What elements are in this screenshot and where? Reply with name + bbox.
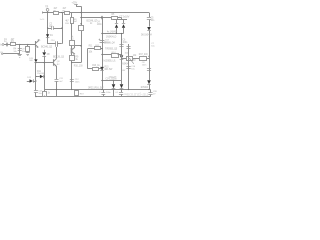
capacitor C5 label [151, 17, 155, 22]
wire input [4, 44, 36, 46]
resistor R10 label [65, 19, 78, 25]
node C junction [80, 12, 81, 13]
wire collector link [48, 43, 62, 45]
capacitor C17 [34, 91, 38, 93]
transistor Q2 [54, 59, 57, 67]
diode label 4x1N5404 [107, 32, 118, 34]
diode D8 [42, 50, 46, 57]
text 0R1 [105, 66, 114, 71]
capacitor C3 [18, 49, 22, 51]
capacitor C12 label [75, 79, 80, 84]
resistor R8 [79, 26, 84, 31]
svg-text:R17_240: R17_240 [139, 54, 148, 56]
capacitor C10 label [51, 40, 56, 42]
wire inter-rail x113.5 [113, 90, 115, 97]
wire Q2 emitter [56, 66, 58, 79]
capacitor C13 label [105, 39, 110, 44]
diode D9 label [121, 63, 129, 65]
wire x72-x81 link [72, 62, 81, 64]
transistor Q2 label [53, 56, 65, 66]
wire vert x113.5 [113, 81, 115, 85]
capacitor C4 [99, 16, 104, 19]
diode D11 [40, 75, 44, 79]
capacitor C15 [126, 47, 130, 49]
resistor R13 label [92, 65, 100, 67]
capacitor C20 label [153, 91, 158, 96]
resistor R11 label [89, 46, 94, 54]
text 1N5404 mid [106, 36, 117, 38]
capacitor C11 [55, 80, 59, 97]
capacitor C6 [119, 45, 123, 47]
resistor R3 [11, 43, 16, 46]
fuse F1 text [46, 5, 49, 11]
capacitor C17 label [38, 91, 43, 96]
resistor R5 label [112, 14, 116, 16]
svg-text:BC: BC [57, 64, 60, 66]
svg-text:+25V: +25V [72, 1, 78, 4]
ground G1 [18, 55, 22, 58]
node G junction [19, 44, 20, 45]
ground G2 [26, 53, 30, 56]
potentiometer P2 label [133, 55, 137, 62]
node E junction [101, 17, 102, 18]
wire gnd left corner [35, 63, 37, 97]
diode D13 [34, 59, 37, 62]
wire mid bus x102 [102, 18, 104, 90]
resistor R13 [93, 68, 99, 71]
capacitor C14 label [106, 70, 126, 81]
text 2200u row2 [109, 77, 118, 79]
wire vert x47.6 [47, 13, 49, 45]
wire feedback bot [88, 68, 103, 69]
wire 2200u node [101, 80, 121, 81]
wire pot top [128, 44, 130, 58]
text r10 [74, 66, 83, 68]
capacitor C13 [100, 41, 105, 43]
wire top rail +V [42, 11, 149, 13]
capacitor C10 [56, 41, 58, 47]
node H junction [27, 44, 28, 45]
capacitor C8 [147, 69, 151, 71]
wire vert x72.2 [71, 60, 73, 89]
resistor R10 narrow [71, 13, 74, 41]
resistor R7 [70, 41, 75, 49]
capacitor C2 label [49, 24, 53, 28]
text q1 type [41, 45, 53, 48]
resistor R14 label [112, 52, 117, 54]
input label [0, 43, 3, 46]
svg-text:CT 2x18V: CT 2x18V [119, 15, 130, 18]
transistor Q3 [72, 47, 76, 54]
resistor R18 label [48, 93, 51, 95]
capacitor C19 [119, 90, 123, 97]
node A junction [61, 12, 62, 13]
wire mid rail [81, 17, 122, 19]
resistor R1 label [54, 7, 58, 12]
transformer label CT [119, 15, 130, 18]
svg-text:BC546_Q2: BC546_Q2 [41, 45, 53, 48]
wire y76.5 [35, 76, 45, 77]
text U2 label [104, 42, 115, 44]
diode D6 [147, 27, 151, 56]
wire stub left [0, 52, 20, 55]
resistor R7 label [71, 36, 74, 40]
resistor R19 label [80, 94, 85, 96]
text quarter watt [40, 19, 45, 21]
capacitor C6 label [123, 40, 129, 45]
wire rail mid y89.5 [44, 89, 150, 91]
node D junction [80, 17, 81, 18]
diode D7 [147, 80, 151, 89]
potentiometer P2 box [127, 57, 133, 61]
resistor R2 [65, 12, 70, 15]
svg-text:R10_100: R10_100 [74, 66, 83, 68]
diode D12 label [27, 77, 32, 79]
capacitor C11 label [59, 78, 63, 83]
wire Q1 emitter down [35, 47, 37, 59]
diode D8 label [47, 54, 51, 56]
text Q5 label [105, 48, 118, 50]
wire y58 chain [122, 55, 150, 59]
capacitor C2 [52, 26, 54, 30]
zener D10 [100, 67, 104, 71]
node R8 junction [80, 23, 81, 24]
resistor R9 label [75, 56, 79, 61]
wire feedback vert [87, 49, 89, 69]
diode D9 [120, 54, 124, 60]
wire rail89 left corner [44, 89, 46, 91]
wire pot bottom [128, 58, 130, 89]
diode D6 label [141, 34, 153, 36]
resistor R18 [43, 90, 47, 97]
transistor Q1 [36, 40, 39, 48]
text regulator [104, 59, 117, 62]
resistor R2 label [63, 7, 67, 12]
svg-text:C14_2200u: C14_2200u [106, 79, 118, 81]
resistor R5 [112, 17, 118, 20]
wire vert x62 [62, 13, 64, 44]
text above rail [88, 87, 104, 90]
resistor R11 [95, 47, 101, 50]
wire bridge top [113, 18, 127, 20]
svg-text:D6 1N5404: D6 1N5404 [141, 34, 153, 36]
diode D5 [120, 84, 124, 89]
wire power feed [76, 6, 82, 62]
power +25V symbol [74, 4, 78, 6]
diode D4 [112, 84, 116, 89]
capacitor C16 label [131, 66, 136, 71]
resistor R3 label [11, 39, 15, 43]
diode D1 label [50, 35, 54, 37]
resistor R4 label [13, 48, 17, 53]
power +25V label [72, 1, 78, 4]
capacitor C12 [70, 80, 74, 82]
resistor R9 [70, 56, 75, 61]
plus sign [99, 39, 101, 41]
resistor R17 [140, 57, 147, 61]
resistor R19 [75, 90, 79, 97]
diode D2 [115, 24, 118, 34]
capacitor C4 label [97, 21, 103, 26]
resistor R6 [26, 45, 30, 53]
wire cap branch [47, 27, 63, 28]
wire vert x44.2 [44, 56, 46, 90]
text q4 label [87, 21, 98, 26]
capacitor C8 label [142, 43, 156, 66]
wire base link [35, 62, 54, 63]
resistor R1 [54, 12, 59, 15]
diode D1 [46, 34, 49, 37]
diode D13 label [29, 58, 33, 62]
diode D3 [122, 24, 125, 34]
svg-text:R13_1k: R13_1k [92, 65, 100, 67]
node I junction [71, 62, 72, 63]
fuse F1 [46, 9, 49, 13]
svg-text:100n: 100n [123, 42, 129, 44]
svg-text:BD139_Q3: BD139_Q3 [53, 56, 65, 59]
svg-text:sound-au: sound-au [127, 92, 149, 98]
svg-text:100n: 100n [97, 24, 103, 26]
svg-text:1N5404_D: 1N5404_D [106, 36, 117, 38]
capacitor C5 [147, 18, 151, 27]
wire out stage [101, 54, 121, 55]
capacitor C19 label [124, 94, 129, 96]
wire top right corner [149, 13, 151, 18]
capacitor C16 [126, 67, 130, 69]
svg-text:1N5404: 1N5404 [141, 87, 149, 89]
svg-text:MJ2955_U1: MJ2955_U1 [104, 59, 117, 62]
wire vert x19.7 [19, 45, 21, 55]
capacitor C1 [7, 43, 8, 47]
wire bridge bottom [101, 33, 123, 34]
wire vert x121.5 [121, 33, 122, 84]
wire bridge right leg [123, 20, 125, 23]
capacitor C18 [101, 90, 105, 97]
diode D12 [30, 79, 37, 83]
wire rail gnd y96.5 [36, 96, 151, 98]
capacitor C15 label [125, 52, 129, 54]
text bottom mid [99, 92, 119, 94]
wire Q3 emitter [71, 54, 73, 56]
input terminal [2, 44, 4, 46]
diode D7 label [141, 87, 149, 89]
wire feedback top [88, 48, 103, 49]
potentiometer P2 arrow [129, 58, 134, 64]
resistor R14 [112, 54, 119, 58]
node F junction [148, 56, 149, 57]
svg-text:0R1 5W: 0R1 5W [105, 69, 114, 71]
wire Q3 collector [75, 45, 82, 47]
node rail junctions [35, 89, 129, 97]
svg-text:TIP2955_Q5: TIP2955_Q5 [105, 48, 118, 50]
transistor Q1 label [38, 40, 42, 42]
capacitor C1 label [4, 39, 8, 43]
resistor R17 label [139, 54, 148, 56]
node J junction [101, 68, 102, 69]
wire vert right [149, 56, 151, 80]
node B junction [47, 12, 48, 13]
wire y81 [27, 81, 30, 83]
wire bridge left leg [116, 20, 118, 23]
resistor R11b label [95, 45, 100, 47]
diode D11 label [37, 71, 45, 75]
svg-text:2200u/35: 2200u/35 [109, 77, 118, 79]
capacitor C20 [148, 89, 152, 97]
watermark [127, 92, 149, 98]
resistor R6 label [22, 49, 26, 53]
wire Q2 collector [56, 47, 58, 59]
